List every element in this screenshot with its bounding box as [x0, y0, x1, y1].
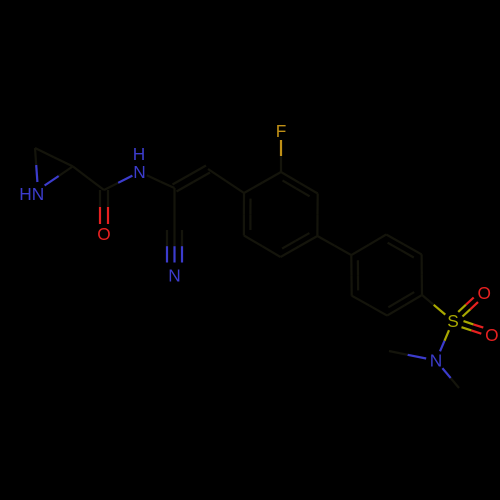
bond S=O bottom [462, 321, 484, 334]
svg-text:H: H [19, 184, 31, 204]
bond ring2 edge BL-VL [351, 255, 358, 296]
bond S=O top [458, 298, 478, 317]
bond C2-C(=O) [73, 166, 104, 190]
bond C=C vinyl [173, 166, 211, 192]
svg-text:H: H [133, 144, 145, 164]
bond N-CH3 right [442, 368, 459, 388]
svg-text:N: N [32, 184, 44, 204]
bond ring1 edge A-B [244, 172, 281, 193]
bond ring1 edge B-C [281, 172, 318, 196]
bond ring1 edge E-F [244, 236, 281, 258]
bond ring1 edge D-E [281, 233, 318, 257]
bond aziridine N-C3 [35, 148, 37, 182]
bond aziridine C3-C2 [35, 148, 73, 166]
bond C=O carbonyl [100, 190, 108, 224]
svg-text:O: O [477, 283, 490, 303]
bond ring2 edge VL-top [351, 235, 386, 256]
bond C(=O)-N amide [104, 176, 132, 190]
bond C-CN [173, 188, 175, 230]
bond ring2 edge TR-VS [421, 254, 424, 295]
bond ring2 edge bottom-BL [352, 296, 387, 316]
bond ring1 edge F-A [244, 193, 251, 236]
svg-text:O: O [97, 224, 110, 244]
bond ring2 edge VS-bottom [387, 292, 422, 316]
bond biphenyl link [317, 236, 351, 255]
bond nitrile triple [167, 230, 182, 263]
bond ring2 edge top-TR [386, 235, 421, 258]
svg-text:N: N [133, 162, 145, 182]
bond ring1 edge C-D [316, 194, 319, 237]
svg-text:F: F [276, 121, 287, 141]
bond N-C alpha [147, 175, 175, 188]
bond C-F [280, 140, 282, 172]
svg-text:S: S [447, 311, 459, 331]
svg-text:N: N [430, 351, 442, 371]
bond C-S [422, 295, 445, 315]
bond aziridine N-C2 [45, 166, 73, 185]
svg-text:O: O [485, 325, 498, 345]
bond N-CH3 left [389, 351, 426, 359]
svg-text:N: N [168, 266, 180, 286]
bond S-N [440, 330, 449, 351]
bond CH-ring1 [208, 169, 244, 193]
